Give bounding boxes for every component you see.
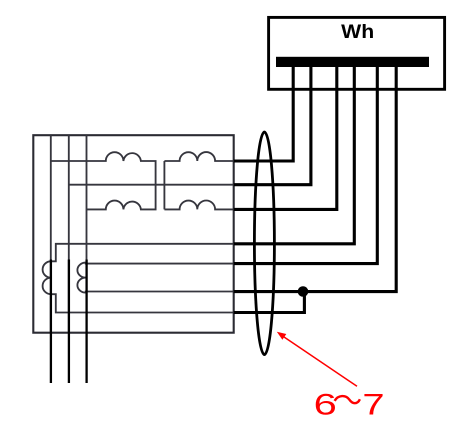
svg-text:7: 7: [362, 389, 384, 422]
svg-text:6: 6: [314, 389, 337, 422]
svg-text:Wh: Wh: [341, 21, 374, 43]
